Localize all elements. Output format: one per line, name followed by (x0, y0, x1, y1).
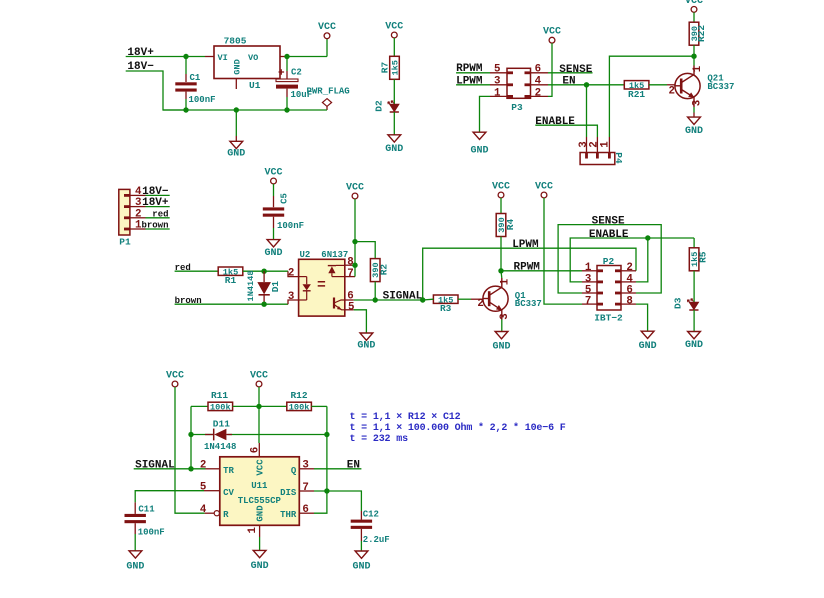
label Q21 (707, 74, 724, 84)
svg-text:VCC: VCC (492, 181, 510, 192)
node SENSE label top (559, 64, 592, 76)
svg-text:6: 6 (250, 447, 262, 453)
svg-text:GND: GND (352, 562, 370, 573)
pin 5 CV of U11 (200, 482, 235, 498)
pin 5 of U2 (345, 301, 355, 313)
pin numbers of P2 (585, 262, 633, 307)
power VCC above U2 (346, 182, 364, 199)
wire SIGNAL to trigger (134, 468, 206, 470)
wire VCC down to U2 pins 8 and 7 (352, 199, 357, 277)
svg-text:C11: C11 (138, 505, 155, 515)
pin VI of U1 (205, 53, 228, 63)
connector P3 body (507, 68, 531, 113)
svg-text:VCC: VCC (250, 370, 268, 381)
label C5 (280, 193, 290, 204)
value 1N4148 of D11 (204, 442, 236, 452)
internal photodiode of U2 (328, 265, 345, 276)
svg-text:LPWM: LPWM (512, 239, 539, 251)
wire SIGNAL mid (375, 297, 425, 302)
formula line 2 (350, 422, 566, 434)
label C2 (291, 68, 302, 78)
regulator U1 7805 body (214, 46, 280, 79)
power VCC above C5 (264, 167, 282, 184)
internal arrows of U2 (318, 282, 325, 286)
diode D2 LED (388, 101, 399, 112)
wire top rail right (311, 405, 327, 407)
connector P1 body (119, 189, 131, 247)
pin 2 of U2 (288, 267, 294, 279)
pin 2 TR of U11 (200, 460, 235, 476)
svg-text:3: 3 (135, 197, 141, 209)
label Q1 (515, 291, 526, 301)
svg-text:2: 2 (135, 208, 141, 220)
svg-text:4: 4 (135, 186, 142, 198)
svg-text:t = 1,1 × R12 × C12: t = 1,1 × R12 × C12 (350, 412, 461, 423)
label D3 (673, 297, 684, 309)
svg-text:TLC555CP: TLC555CP (238, 496, 282, 506)
resistor R21 (624, 81, 649, 101)
resistor R1 (218, 267, 243, 286)
svg-text:D3: D3 (673, 297, 684, 309)
pin 3 of U2 (288, 291, 294, 303)
resistor R7 (379, 56, 400, 79)
svg-text:1: 1 (692, 65, 704, 72)
wire 18V- down to ground rail (126, 71, 186, 110)
svg-text:3: 3 (499, 313, 511, 319)
node brown at P1 pin 1 (141, 221, 168, 231)
svg-text:100nF: 100nF (277, 221, 304, 231)
svg-text:GND: GND (126, 561, 144, 572)
svg-text:VCC: VCC (256, 459, 266, 476)
svg-text:18V+: 18V+ (142, 197, 169, 209)
wire VCC to P2 pin 7 (544, 198, 582, 304)
pin 6 THR of U11 (280, 504, 314, 520)
pins of P3 (490, 73, 548, 97)
svg-text:1N4148: 1N4148 (204, 442, 236, 452)
svg-text:C1: C1 (190, 73, 201, 83)
svg-text:P1: P1 (119, 236, 131, 247)
wire red to R1 (175, 270, 219, 272)
svg-text:GND: GND (357, 341, 375, 352)
svg-text:Q: Q (291, 466, 297, 476)
wire D2 to ground (393, 112, 395, 135)
svg-text:SENSE: SENSE (592, 216, 625, 228)
svg-text:U2: U2 (300, 250, 311, 260)
pin 3 of Q1 (499, 313, 511, 319)
label D2 (373, 100, 384, 112)
resistor R2 (370, 259, 389, 282)
wire SENSE loop pin5 to pin6 (558, 225, 661, 293)
wire SENSE at P3 pin 6 (548, 72, 593, 74)
svg-text:100k: 100k (289, 403, 310, 413)
wire collector rail to P4 pin 1 (609, 56, 694, 137)
node LPWM label top (456, 76, 483, 88)
pin 1 of Q21 (692, 65, 704, 72)
svg-text:GND: GND (639, 341, 657, 352)
svg-text:BC337: BC337 (515, 299, 542, 309)
svg-text:U11: U11 (251, 481, 268, 491)
wire brown to U2 pin 3 (175, 300, 299, 307)
svg-text:18V−: 18V− (142, 186, 169, 198)
pin numbers of P1 (135, 186, 142, 232)
power VCC above R7 (385, 21, 403, 37)
svg-text:VCC: VCC (543, 27, 561, 38)
svg-text:1: 1 (499, 278, 511, 285)
node ENABLE label top (535, 116, 575, 128)
label U2 (300, 250, 311, 260)
pins of P2 (582, 271, 636, 304)
ground below C12 (352, 551, 370, 573)
svg-text:7: 7 (347, 268, 353, 280)
connector P2 body (597, 266, 621, 311)
node 18V- net label (127, 61, 154, 73)
pin VO of U1 (248, 53, 287, 63)
svg-text:EN: EN (562, 76, 575, 88)
timer U11 TLC555CP body (220, 457, 299, 526)
svg-text:THR: THR (280, 510, 297, 520)
wire P2 pin 8 to ground (636, 304, 648, 331)
node EN label top (562, 76, 575, 88)
wire VCC to 555 reset pin (175, 387, 205, 513)
svg-text:4: 4 (535, 76, 542, 88)
svg-text:GND: GND (251, 561, 269, 572)
node 18V- at P1 pin 4 (142, 186, 169, 198)
ground below U2 (357, 333, 375, 352)
wire ENABLE to R5 (693, 238, 695, 248)
svg-text:2: 2 (288, 267, 294, 279)
svg-text:P3: P3 (511, 102, 523, 113)
svg-text:R: R (223, 510, 229, 520)
node brown net label (175, 296, 202, 306)
wire ground rail (163, 107, 327, 112)
wire R22 to Q21 collector (691, 45, 696, 65)
svg-text:4: 4 (200, 504, 207, 516)
ground below U1 (227, 110, 245, 160)
svg-text:2: 2 (535, 87, 541, 99)
wire R4 to RPWM junction (498, 237, 503, 274)
svg-text:5: 5 (494, 64, 500, 76)
resistor R12 (287, 390, 312, 413)
svg-text:GND: GND (685, 126, 703, 137)
svg-text:GND: GND (233, 59, 243, 74)
ground below U11 (251, 537, 269, 572)
label C11 (138, 505, 155, 515)
power VCC top-left (318, 22, 336, 56)
svg-text:IBT−2: IBT−2 (594, 312, 623, 323)
resistor R22 (689, 22, 707, 45)
pin 1 of Q1 (499, 278, 511, 285)
resistor R3 (433, 295, 458, 314)
power VCC above P3 (543, 27, 561, 44)
capacitor C11 (125, 514, 146, 551)
node SENSE mid label (592, 216, 625, 228)
formula line 1 (350, 412, 461, 423)
svg-text:D2: D2 (373, 100, 384, 112)
label D1 (270, 281, 281, 293)
svg-text:3: 3 (692, 100, 704, 106)
label C1 (190, 73, 201, 83)
wire R1 to U2 pin 2 (243, 269, 299, 277)
svg-text:VCC: VCC (685, 0, 703, 7)
diode D3 LED (687, 299, 698, 310)
node ENABLE mid label (589, 229, 629, 241)
node red at P1 pin 2 (152, 209, 168, 219)
wire D11 row (191, 434, 327, 436)
capacitor C1 (175, 57, 196, 111)
svg-text:R4: R4 (505, 219, 516, 231)
svg-text:6N137: 6N137 (321, 250, 348, 260)
svg-text:brown: brown (141, 221, 168, 231)
svg-text:TR: TR (223, 466, 234, 476)
ground below P3 (470, 132, 488, 156)
wire VCC junction to pin 6 (258, 406, 260, 443)
svg-text:P4: P4 (613, 152, 624, 164)
value 100nF of C1 (189, 95, 216, 105)
resistor R5 (689, 248, 708, 271)
capacitor C2 polarized (276, 57, 298, 111)
wire VCC to R7 (393, 38, 395, 56)
svg-text:SENSE: SENSE (559, 64, 592, 76)
svg-text:SIGNAL: SIGNAL (135, 459, 175, 471)
wire R3 to Q1 base (458, 298, 483, 300)
wire VCC to P3 pin 2 (548, 43, 552, 96)
label C12 (363, 510, 379, 520)
svg-text:GND: GND (470, 145, 488, 156)
wire R5 to D3 (693, 271, 695, 303)
svg-text:R12: R12 (290, 390, 307, 401)
internal LED of U2 (299, 277, 311, 300)
svg-text:6: 6 (535, 64, 541, 76)
svg-text:3: 3 (494, 76, 500, 88)
power VCC above P2 pin 7 (535, 181, 553, 198)
label 7805 (224, 35, 247, 46)
svg-text:100nF: 100nF (189, 95, 216, 105)
wire EN from P3 pin 4 to R21 (548, 82, 624, 87)
wire U2 pin 5 to ground (354, 310, 367, 333)
wire LPWM to P3 pin 3 (456, 84, 490, 86)
capacitor C5 (263, 184, 284, 240)
svg-text:D1: D1 (270, 281, 281, 293)
wire left vertical to trigger (188, 406, 193, 471)
svg-text:1k5: 1k5 (390, 60, 400, 75)
svg-text:6: 6 (302, 504, 308, 516)
ground below D3 (685, 332, 703, 352)
capacitor C12 (351, 511, 372, 551)
pin GND of U1 (233, 59, 243, 89)
node LPWM mid label (512, 239, 539, 251)
power VCC above R22 (685, 0, 703, 12)
wire RPWM to P3 pin 5 (456, 72, 490, 74)
node 18V+ net label (127, 47, 154, 59)
svg-text:GND: GND (256, 505, 266, 522)
pin 7 of U2 (345, 268, 355, 280)
wire ENABLE to P4 pin 2 (535, 125, 597, 137)
pin 8 of U2 (345, 256, 355, 268)
svg-text:t = 232 ms: t = 232 ms (350, 434, 409, 445)
svg-text:VCC: VCC (264, 167, 282, 178)
svg-text:100nF: 100nF (138, 528, 165, 538)
svg-text:R22: R22 (696, 25, 707, 42)
wire U2 pin 6 to SIGNAL (354, 297, 378, 302)
svg-text:100k: 100k (210, 403, 231, 413)
svg-text:PWR_FLAG: PWR_FLAG (307, 86, 350, 96)
wire Q21 emitter to ground (685, 107, 703, 137)
svg-text:R5: R5 (697, 251, 708, 263)
ground below C11 (126, 551, 144, 573)
node red net label (175, 263, 191, 273)
svg-text:BC337: BC337 (707, 82, 734, 92)
value 100nF of C5 (277, 221, 304, 231)
svg-text:VCC: VCC (318, 22, 336, 33)
svg-text:2: 2 (200, 460, 206, 472)
value 1N4148 of D1 (246, 271, 256, 302)
svg-text:1: 1 (599, 141, 611, 148)
svg-text:ENABLE: ENABLE (589, 229, 629, 241)
connector P4 body (580, 152, 624, 164)
svg-text:18V+: 18V+ (127, 47, 154, 59)
svg-text:C5: C5 (280, 193, 290, 204)
diode D1 1N4148 (258, 271, 270, 304)
wire R21 to Q21 base (649, 84, 675, 86)
svg-text:R21: R21 (628, 89, 645, 100)
pins of P1 (124, 195, 170, 229)
wire Q to EN (314, 468, 361, 470)
svg-text:R2: R2 (379, 264, 390, 276)
wire R7 to D2 (393, 79, 395, 104)
capacitor C11 wire (135, 491, 204, 514)
svg-text:GND: GND (385, 144, 403, 155)
wire VCC to R22 (693, 12, 695, 22)
pin 2 of Q1 (477, 298, 483, 310)
formula line 3 (350, 434, 409, 445)
node SIGNAL mid label (383, 290, 423, 302)
svg-text:R1: R1 (225, 275, 237, 286)
svg-text:C12: C12 (363, 510, 379, 520)
wire R2 to SIGNAL junction (374, 282, 376, 300)
svg-text:red: red (152, 209, 168, 219)
svg-text:2: 2 (477, 298, 483, 310)
resistor R4 (496, 214, 516, 237)
pin 3 Q of U11 (291, 460, 314, 476)
resistor R11 (208, 390, 233, 413)
svg-text:VCC: VCC (346, 182, 364, 193)
wire VCC branch to R2 (355, 242, 375, 259)
svg-text:8: 8 (626, 296, 632, 308)
svg-text:R3: R3 (440, 303, 452, 314)
node SIGNAL bottom label (135, 459, 175, 471)
wire RPWM junction to Q1 collector (500, 271, 503, 278)
node RPWM label top (456, 63, 483, 75)
plus sign of C2 (279, 69, 285, 75)
optocoupler U2 6N137 body (299, 259, 345, 316)
svg-text:GND: GND (264, 248, 282, 259)
wire D3 to ground (693, 310, 695, 332)
svg-text:D11: D11 (213, 419, 230, 430)
svg-text:U1: U1 (249, 80, 261, 91)
svg-text:VO: VO (248, 53, 258, 63)
label P2 (603, 256, 615, 267)
label U11 (251, 481, 268, 491)
pin 7 DIS of U11 (280, 482, 314, 498)
ground below D2 (385, 135, 403, 155)
pin 4 R of U11 (200, 504, 229, 520)
power VCC above R4 (492, 181, 510, 198)
wire VCC to R4 (500, 198, 502, 214)
value 2.2uF of C12 (363, 535, 390, 545)
wire SIGNAL junction to R3 (423, 298, 434, 301)
wire DIS to C12 (314, 491, 361, 511)
wire EN junction down to P4 pin 3 (586, 85, 588, 137)
ground below C5 (264, 240, 282, 259)
transistor Q1 BC337 (483, 278, 508, 320)
wire LPWM from SIGNAL to P2 pin 2 (423, 248, 636, 300)
wire right vertical to THR (314, 406, 330, 513)
svg-text:GND: GND (685, 340, 703, 351)
svg-text:VCC: VCC (385, 21, 403, 32)
svg-text:RPWM: RPWM (514, 261, 541, 273)
label BC337 of Q21 (707, 82, 734, 92)
value 100nF of C11 (138, 528, 165, 538)
svg-text:7805: 7805 (224, 35, 247, 46)
pins of P4 (587, 137, 610, 159)
wire RPWM to P2 pin 1 (501, 270, 582, 272)
wire P3 pin1 to ground (480, 96, 491, 132)
svg-text:7: 7 (302, 482, 308, 494)
label D11 (213, 419, 230, 430)
pin 2 of Q21 (669, 86, 675, 98)
svg-text:P2: P2 (603, 256, 615, 267)
pin numbers of P4 (578, 141, 611, 148)
svg-text:3: 3 (302, 460, 308, 472)
svg-text:5: 5 (200, 482, 206, 494)
wire VCC to top rail (256, 387, 261, 409)
svg-text:VI: VI (218, 53, 228, 63)
wire ENABLE loop to P2 pins 3 and 4 (570, 235, 694, 282)
pin 3 of Q21 (692, 100, 704, 106)
svg-text:VCC: VCC (166, 370, 184, 381)
wire Q1 emitter to ground (492, 320, 510, 353)
svg-text:CV: CV (223, 488, 234, 498)
node 18V+ at P1 pin 3 (142, 197, 169, 209)
svg-text:ENABLE: ENABLE (535, 116, 575, 128)
svg-text:GND: GND (492, 341, 510, 352)
value 10uF of C2 (291, 90, 313, 100)
svg-text:2: 2 (669, 86, 675, 98)
svg-text:1: 1 (494, 87, 501, 99)
svg-text:R11: R11 (211, 390, 228, 401)
value 6N137 of U2 (321, 250, 348, 260)
wire rail R11 to R12 (233, 405, 287, 407)
node EN bottom label (347, 459, 360, 471)
power VCC above reset (166, 370, 184, 387)
power flag PWR_FLAG (307, 86, 350, 110)
svg-text:2.2uF: 2.2uF (363, 535, 390, 545)
node RPWM mid label (514, 261, 541, 273)
svg-text:C2: C2 (291, 68, 302, 78)
svg-text:1: 1 (247, 527, 259, 534)
ground below P2 (639, 331, 657, 352)
pin 6 of U2 (345, 291, 354, 303)
wire 18V+ to regulator VI (126, 54, 205, 59)
svg-text:LPWM: LPWM (456, 76, 483, 88)
wire top rail left (191, 405, 208, 407)
internal transistor of U2 (334, 298, 345, 310)
pin 6 top VCC of U11 (250, 443, 266, 476)
svg-text:EN: EN (347, 459, 360, 471)
value TLC555CP of U11 (238, 496, 282, 506)
transistor Q21 BC337 (675, 66, 700, 108)
svg-text:5: 5 (348, 301, 354, 313)
